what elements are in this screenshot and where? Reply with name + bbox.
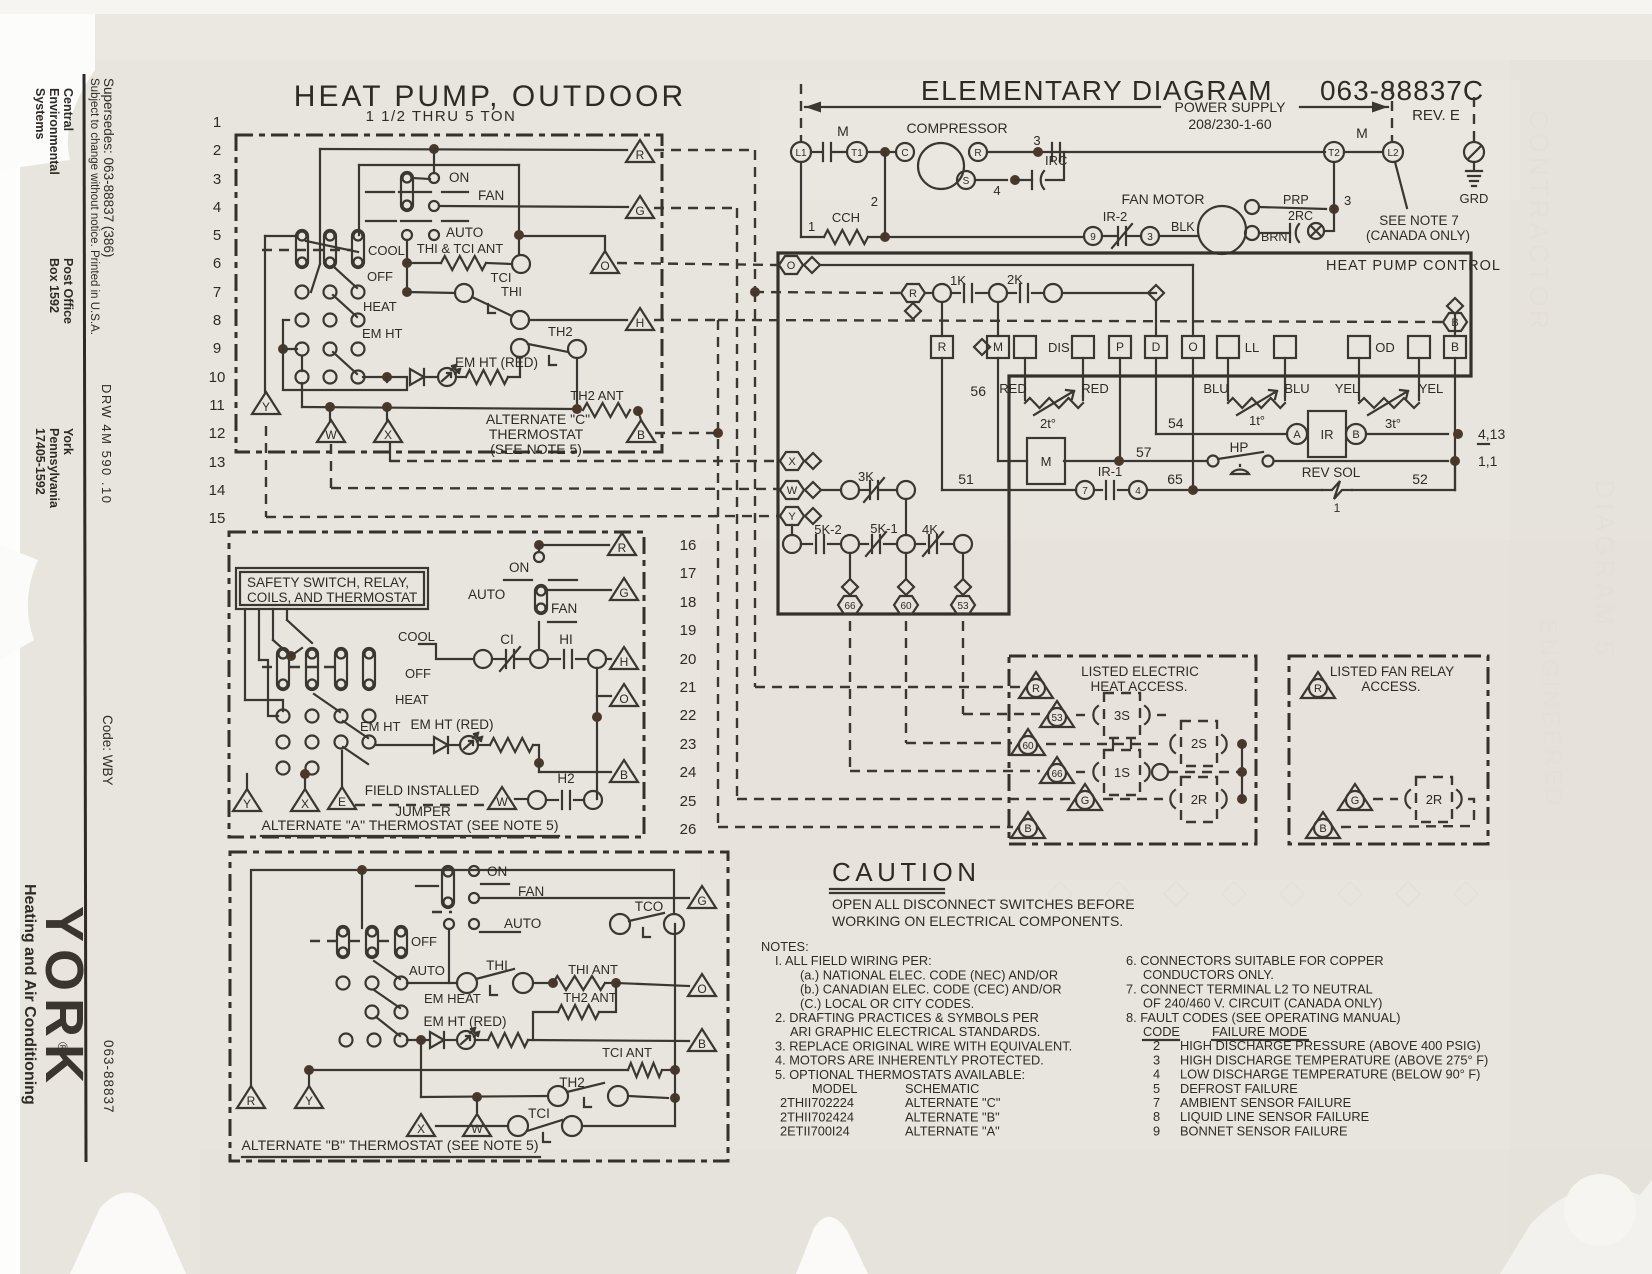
junction (592, 712, 602, 722)
terminal hex O (779, 256, 803, 274)
wire Y drop (246, 774, 248, 789)
thermistor 2t (1024, 396, 1026, 400)
svg-text:RED: RED (999, 381, 1026, 396)
listed fan relay access box (1289, 656, 1488, 844)
wire Y drop (308, 1070, 310, 1086)
terminal 60 heat access (1011, 729, 1045, 755)
resistor TH2 ANT (583, 403, 630, 417)
svg-text:19: 19 (680, 622, 697, 639)
wire T1 to compressor (867, 151, 896, 153)
contact HI (564, 650, 572, 668)
svg-text:B: B (620, 768, 628, 782)
indicator EM HT red alt A (460, 733, 482, 754)
wire dashed B row (1341, 826, 1474, 827)
wire (287, 620, 312, 643)
resistor TCI ANT (628, 1063, 662, 1077)
svg-text:TCO: TCO (635, 899, 664, 914)
junction (416, 1035, 426, 1045)
wire (538, 763, 540, 772)
wire (533, 1012, 558, 1040)
svg-text:21: 21 (680, 679, 697, 696)
svg-text:4: 4 (1135, 486, 1141, 497)
wire IRC to line (1015, 152, 1064, 180)
svg-text:15: 15 (209, 510, 226, 527)
svg-text:M: M (837, 123, 849, 139)
svg-text:CCH: CCH (832, 210, 860, 225)
junction node (429, 144, 439, 154)
selector contact grid alt A (277, 710, 290, 723)
FAILURE MODE underline (1212, 1039, 1308, 1041)
svg-text:OFF: OFF (367, 269, 393, 284)
svg-text:L1: L1 (795, 148, 807, 159)
wire (358, 230, 360, 235)
coil B (1444, 336, 1466, 358)
contact IR-2 (1118, 227, 1126, 245)
svg-text:OD: OD (1375, 340, 1395, 355)
svg-text:SCHEMATIC: SCHEMATIC (905, 1081, 979, 1096)
terminal B fan access (1306, 812, 1340, 838)
svg-text:4,13: 4,13 (1478, 426, 1505, 442)
resistor THI ANT (553, 976, 605, 990)
wire (533, 982, 548, 984)
junction (514, 230, 524, 240)
contact TCO a (610, 914, 630, 934)
svg-text:Environmental: Environmental (47, 88, 61, 175)
svg-text:5. OPTIONAL THERMOSTATS AVAILA: 5. OPTIONAL THERMOSTATS AVAILABLE: (775, 1067, 1025, 1082)
wire safety drop 1 (244, 609, 246, 700)
junction (357, 865, 367, 875)
svg-text:4: 4 (993, 183, 1000, 198)
svg-text:CONTRACTOR: CONTRACTOR (1524, 110, 1554, 333)
terminal E alt A (328, 787, 356, 809)
svg-text:W: W (325, 428, 337, 442)
wire to ON (433, 149, 435, 173)
svg-text:IR: IR (1321, 427, 1334, 442)
wire dashed L1 drop (800, 84, 802, 141)
terminal W alt B (463, 1114, 491, 1136)
wire dashed jumper (355, 804, 489, 806)
svg-text:EM HT (RED): EM HT (RED) (411, 717, 494, 732)
junction node 65 (1188, 485, 1198, 495)
switch blade (343, 721, 368, 738)
terminal T2 (1324, 142, 1344, 162)
wire 54 to IR A (1156, 433, 1287, 435)
svg-text:ALTERNATE "C": ALTERNATE "C" (905, 1095, 1000, 1110)
relay contact 3K b (897, 481, 915, 499)
position mark (480, 931, 520, 933)
contact H2 b (584, 791, 602, 809)
svg-text:AUTO: AUTO (446, 225, 483, 240)
wire (486, 263, 512, 264)
contact ON alt B (469, 866, 479, 876)
svg-text:A: A (1293, 429, 1301, 441)
svg-text:Post Office: Post Office (61, 258, 75, 324)
margin text: Code WBY (100, 715, 115, 786)
switch blade cool (306, 241, 358, 252)
terminal G fan access (1338, 784, 1372, 810)
margin text: Post Office Box 1592 (47, 258, 75, 324)
terminal R fan access (1301, 672, 1335, 698)
svg-text:FAN: FAN (478, 188, 504, 203)
svg-text:6: 6 (213, 255, 221, 272)
margin text: 063-88837 (101, 1040, 116, 1114)
svg-text:ALTERNATE "B": ALTERNATE "B" (905, 1109, 1000, 1124)
svg-text:REV. E: REV. E (1412, 107, 1460, 124)
svg-text:(SEE NOTE 5): (SEE NOTE 5) (490, 441, 582, 457)
junction net R (750, 287, 760, 297)
svg-text:ALTERNATE "A" THERMOSTAT (SEE: ALTERNATE "A" THERMOSTAT (SEE NOTE 5) (262, 817, 559, 833)
svg-text:CI: CI (500, 632, 514, 647)
connector DIS a (1014, 336, 1036, 358)
compressor terminal S (957, 171, 975, 189)
svg-text:LISTED FAN RELAY: LISTED FAN RELAY (1330, 664, 1454, 679)
wire B row (528, 1040, 689, 1041)
junction (670, 1093, 680, 1103)
svg-text:(C.) LOCAL OR CITY CODES.: (C.) LOCAL OR CITY CODES. (800, 996, 974, 1011)
thermistor 3t (1358, 396, 1360, 400)
selector contact grid alt C (296, 286, 309, 299)
notes block right (1126, 953, 1488, 1138)
relay contact 3K a (841, 481, 859, 499)
diode (410, 369, 424, 385)
svg-text:56: 56 (970, 383, 986, 399)
svg-text:YEL: YEL (1419, 381, 1444, 396)
svg-text:Pennsylvania: Pennsylvania (47, 428, 61, 509)
selector contact grid alt B (337, 977, 350, 990)
wire drop 66 (849, 553, 851, 579)
wire 3 R to T2 (987, 151, 1325, 153)
contact (1052, 143, 1060, 161)
terminal B alt A (610, 760, 638, 782)
svg-text:AUTO: AUTO (468, 587, 505, 602)
svg-text:OF 240/460 V. CIRCUIT (CANADA: OF 240/460 V. CIRCUIT (CANADA ONLY) (1143, 996, 1382, 1011)
wire (301, 383, 303, 407)
CODE underline (1143, 1039, 1179, 1041)
resistor TH2 ANT (558, 1005, 599, 1019)
svg-text:X: X (301, 797, 309, 811)
wire W to 3K (821, 489, 841, 491)
svg-text:8: 8 (213, 312, 221, 329)
caption underline (261, 835, 559, 837)
svg-text:53: 53 (957, 601, 969, 612)
connector LL a (1217, 336, 1239, 358)
contactor M (1027, 438, 1065, 484)
svg-text:16: 16 (680, 537, 697, 554)
svg-text:THI: THI (501, 284, 522, 299)
junction node 3 (1329, 204, 1339, 214)
wire node 2 vertical (884, 152, 886, 237)
margin logo YORK (34, 906, 94, 1090)
svg-text:063-88837: 063-88837 (101, 1040, 116, 1114)
svg-text:HP: HP (1230, 440, 1249, 455)
svg-text:14: 14 (209, 482, 226, 499)
wire dashed net B/H (654, 319, 718, 321)
svg-text:CODE: CODE (1143, 1024, 1180, 1039)
connector diamond W (805, 482, 821, 498)
wire X drop upper (420, 1040, 422, 1097)
terminal hex 60 (894, 596, 918, 614)
junction node 1-1 (1450, 456, 1460, 466)
svg-text:20: 20 (680, 651, 697, 668)
wire T2 down (1333, 162, 1335, 230)
connector diamond X (805, 453, 821, 469)
capacitor IRC (1032, 171, 1044, 189)
connector diamond O (804, 257, 820, 273)
svg-text:IR-1: IR-1 (1098, 464, 1123, 479)
contact H2 (562, 791, 570, 809)
svg-text:X: X (788, 456, 796, 468)
junction (1237, 767, 1247, 777)
wire (533, 745, 539, 763)
svg-text:H: H (620, 655, 629, 669)
junction W (325, 402, 335, 412)
contact ON alt A (534, 552, 544, 562)
wire fan to CI (538, 622, 540, 650)
contact M left (823, 143, 831, 161)
wire auto down (406, 240, 408, 292)
wire OD b lead (1418, 358, 1420, 396)
wire X triangle drop (389, 443, 391, 461)
svg-text:BLU: BLU (1203, 381, 1228, 396)
svg-text:EM HEAT: EM HEAT (424, 991, 481, 1006)
wire IR B to node 413 (1366, 433, 1448, 435)
position mark (366, 191, 394, 193)
wire (925, 292, 933, 294)
contact AUTO a (402, 230, 412, 240)
terminal W alt C (317, 420, 345, 442)
svg-text:4K: 4K (922, 522, 938, 537)
svg-text:T1: T1 (851, 148, 863, 159)
svg-text:TH2 ANT: TH2 ANT (570, 388, 624, 403)
svg-text:AUTO: AUTO (409, 963, 445, 978)
terminal hex X (780, 452, 804, 470)
svg-text:R: R (974, 148, 981, 159)
svg-text:LISTED ELECTRIC: LISTED ELECTRIC (1081, 664, 1199, 679)
wire dashed R to hex (754, 292, 902, 293)
svg-text:65: 65 (1167, 471, 1183, 487)
wire dashed net 66 (849, 621, 851, 771)
svg-text:1S: 1S (1114, 765, 1130, 780)
terminal Y alt B (295, 1086, 323, 1108)
svg-text:REV SOL: REV SOL (1302, 465, 1361, 480)
thermostat contact THI b (511, 311, 529, 329)
switch fan toggle alt A (535, 585, 547, 614)
svg-text:D: D (1152, 340, 1161, 354)
terminal B heat access (1011, 812, 1045, 838)
svg-text:TCI: TCI (528, 1106, 550, 1121)
svg-text:YORK: YORK (34, 906, 94, 1090)
terminal L1 (791, 142, 811, 162)
wire LL b lead (1284, 358, 1286, 396)
svg-text:L2: L2 (1387, 148, 1399, 159)
svg-text:O: O (600, 259, 609, 273)
position mark (481, 883, 509, 885)
wire O hex to O coil (820, 264, 1193, 266)
wire S branch (975, 179, 1007, 181)
wire HP to node 11 (1274, 460, 1448, 462)
wire dashed L2 drop (1391, 84, 1393, 141)
wire CCH to fan (868, 236, 1084, 238)
fan terminal 9 (1084, 227, 1102, 245)
junction (670, 1065, 680, 1075)
svg-text:2S: 2S (1191, 736, 1207, 751)
svg-text:54: 54 (1168, 415, 1184, 431)
svg-text:O: O (787, 260, 796, 272)
relay contact 2K b (1044, 284, 1062, 302)
svg-text:3K: 3K (858, 469, 874, 484)
junction node 2 top (880, 147, 890, 157)
wire 2S to 2R (1241, 744, 1243, 799)
svg-text:2t°: 2t° (1040, 416, 1056, 431)
IR terminal B (1346, 424, 1366, 444)
thermostat contact TCI (512, 255, 530, 273)
svg-text:2THII702424: 2THII702424 (780, 1109, 854, 1124)
svg-text:HIGH DISCHARGE TEMPERATURE (AB: HIGH DISCHARGE TEMPERATURE (ABOVE 275° F… (1180, 1052, 1488, 1067)
wire dashed net G vertical (736, 208, 738, 799)
margin text: York Pennsylvania 17405-1592 (33, 428, 75, 509)
wire dashed 66 row inside (1168, 771, 1242, 773)
svg-text:EM HT (RED): EM HT (RED) (455, 355, 538, 370)
wire DIS b lead (1082, 358, 1084, 396)
svg-text:T2: T2 (1328, 148, 1340, 159)
wire TCI row (436, 1125, 508, 1127)
wire dashed net 53 (962, 621, 964, 714)
svg-text:OPEN ALL DISCONNECT SWITCHES B: OPEN ALL DISCONNECT SWITCHES BEFORE (832, 896, 1135, 912)
svg-text:6. CONNECTORS SUITABLE FOR COP: 6. CONNECTORS SUITABLE FOR COPPER (1126, 953, 1384, 968)
connector diamond D (1148, 285, 1164, 301)
junction (572, 404, 582, 414)
svg-text:HEAT: HEAT (395, 692, 429, 707)
wire dashed net R vertical (754, 292, 756, 687)
wire TH2 row (421, 1096, 548, 1097)
coil R (931, 336, 953, 358)
svg-text:R: R (247, 1094, 256, 1108)
wire 2RC to T2 (1324, 230, 1334, 232)
listed electric heat access box (1009, 656, 1256, 844)
wire T2 to L2 (1344, 151, 1383, 153)
svg-text:B: B (1024, 823, 1031, 835)
svg-text:8. FAULT CODES (SEE OPERATING: 8. FAULT CODES (SEE OPERATING MANUAL) (1126, 1010, 1400, 1025)
junction (534, 758, 544, 768)
position dashes (262, 249, 290, 251)
thermostat contact THI a (455, 284, 473, 302)
svg-text:DIAGRAM 5: DIAGRAM 5 (1590, 480, 1620, 659)
junction (1237, 794, 1247, 804)
svg-text:3: 3 (1147, 232, 1153, 243)
switch blade TH2 (567, 1083, 604, 1092)
svg-text:3S: 3S (1114, 708, 1130, 723)
terminal X alt A (291, 789, 319, 811)
selector cluster alt A (277, 648, 289, 690)
alternate C thermostat box (236, 135, 662, 452)
wire dashed net R to heat access (755, 686, 1022, 688)
contact IR-1 (1106, 481, 1114, 499)
svg-text:ALTERNATE "A": ALTERNATE "A" (905, 1124, 1000, 1139)
svg-text:B: B (637, 428, 645, 442)
svg-text:5: 5 (213, 227, 221, 244)
svg-text:9: 9 (1090, 232, 1096, 243)
wire safety drop 4 (286, 609, 288, 620)
junction (278, 344, 288, 354)
svg-text:W: W (787, 485, 798, 497)
wire to B (638, 411, 641, 420)
svg-text:2ETII700I24: 2ETII700I24 (780, 1124, 850, 1139)
wire W triangle drop (330, 444, 332, 488)
svg-text:7: 7 (1082, 486, 1088, 497)
wire to Y (265, 235, 297, 237)
wire O coil down (1192, 358, 1194, 490)
thermostat contact TH2 b (568, 340, 586, 358)
wire (259, 660, 278, 716)
wire LL a lead (1227, 358, 1229, 396)
wire to D drop (1062, 292, 1156, 294)
wire (832, 151, 847, 153)
connector diamond M (974, 339, 990, 355)
svg-text:O: O (619, 692, 628, 706)
terminal H alt C (626, 308, 654, 330)
diode alt A (434, 737, 448, 753)
wire safety drop 2 (258, 609, 260, 660)
wire em ht row (363, 376, 407, 378)
wire O row (616, 983, 689, 986)
svg-text:THERMOSTAT: THERMOSTAT (489, 426, 584, 442)
terminal O alt B (688, 974, 716, 996)
wire (801, 236, 824, 238)
svg-text:12: 12 (209, 425, 226, 442)
svg-text:1,1: 1,1 (1478, 453, 1498, 469)
coil D (1145, 336, 1167, 358)
wire (811, 151, 822, 153)
junction (1010, 175, 1020, 185)
svg-text:Box 1592: Box 1592 (47, 258, 61, 313)
svg-text:10: 10 (209, 369, 226, 386)
svg-text:EM HT: EM HT (362, 326, 403, 341)
position mark (548, 621, 576, 623)
indicator EM HT red alt B (457, 1028, 479, 1049)
junction node (880, 232, 890, 242)
contact H2 a (528, 791, 546, 809)
wire (599, 983, 616, 1012)
svg-text:G: G (697, 894, 706, 908)
caution underline (830, 888, 944, 890)
wire dashed net 60 (905, 621, 907, 743)
wire THI row (407, 292, 455, 293)
wire pill to ON (412, 178, 430, 179)
svg-text:13: 13 (209, 454, 226, 471)
svg-text:66: 66 (1051, 769, 1063, 780)
compressor motor (918, 143, 964, 189)
terminal R alt B (237, 1086, 265, 1108)
relay contact 2K a (989, 284, 1007, 302)
scan tone patches (700, 540, 1652, 880)
junction node 4-13 (1453, 429, 1463, 439)
wire TCI ANT row (309, 1069, 628, 1071)
svg-text:G: G (1081, 795, 1090, 807)
svg-text:AMBIENT SENSOR FAILURE: AMBIENT SENSOR FAILURE (1180, 1095, 1351, 1110)
svg-text:THI ANT: THI ANT (568, 962, 618, 977)
contact HI b (588, 650, 606, 668)
diode alt B (430, 1032, 444, 1048)
contact 4K (929, 535, 937, 553)
relay contact 5K-2 b (841, 535, 859, 553)
switch blade (343, 747, 368, 764)
svg-text:(CANADA ONLY): (CANADA ONLY) (1366, 228, 1470, 243)
wire em ht row (375, 744, 432, 746)
wire dashed net R (654, 149, 755, 151)
wire (283, 348, 297, 350)
resistor em ht (466, 370, 508, 384)
svg-text:W: W (496, 795, 508, 809)
